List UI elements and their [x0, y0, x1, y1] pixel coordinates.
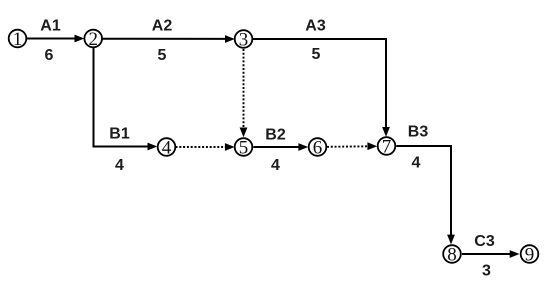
wire dummy dotted 4-5: [176, 143, 235, 151]
node 6: [309, 137, 327, 158]
svg-text:5: 5: [239, 137, 249, 158]
svg-text:8: 8: [447, 244, 457, 265]
svg-text:6: 6: [313, 137, 323, 158]
node 9: [521, 244, 539, 265]
svg-text:4: 4: [271, 157, 280, 174]
svg-text:4: 4: [162, 137, 172, 158]
node 4: [158, 137, 176, 158]
svg-text:B2: B2: [265, 127, 286, 144]
wire A2 arrow 2-3: [102, 35, 235, 43]
svg-text:6: 6: [45, 47, 54, 64]
svg-text:3: 3: [239, 29, 249, 50]
svg-text:5: 5: [158, 47, 167, 64]
wire dummy dotted 6-7: [327, 142, 377, 150]
wire A3 arrow 3-7 elbow: [253, 39, 390, 137]
svg-text:4: 4: [115, 157, 124, 174]
node 8: [443, 244, 461, 265]
svg-text:A2: A2: [152, 18, 173, 35]
node 2: [84, 29, 102, 50]
wire B1 arrow 2-4 elbow: [94, 47, 158, 150]
svg-text:A3: A3: [305, 18, 326, 35]
node 5: [235, 137, 253, 158]
node 3: [235, 29, 253, 50]
svg-text:B3: B3: [408, 124, 429, 141]
svg-text:4: 4: [412, 155, 421, 172]
wire C3 arrow 8-9: [462, 250, 520, 258]
node 7: [378, 136, 396, 157]
svg-text:5: 5: [312, 46, 321, 63]
svg-text:2: 2: [88, 29, 98, 50]
svg-text:7: 7: [382, 136, 392, 157]
wire A1 arrow 1-2: [27, 35, 85, 43]
svg-text:A1: A1: [40, 18, 61, 35]
wire B2 arrow 5-6: [253, 143, 308, 151]
node 1: [9, 29, 27, 50]
svg-text:1: 1: [13, 29, 23, 50]
wire B3 arrow 7-8 elbow: [396, 146, 455, 244]
svg-text:C3: C3: [474, 233, 495, 250]
svg-text:3: 3: [482, 263, 491, 280]
svg-text:9: 9: [525, 244, 535, 265]
svg-text:B1: B1: [109, 126, 130, 143]
wire dummy dotted 3-5: [240, 49, 248, 137]
